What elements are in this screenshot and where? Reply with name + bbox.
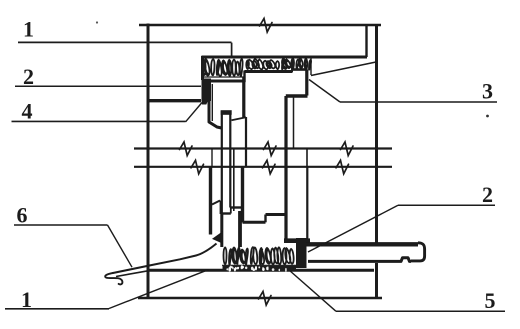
svg-text:1: 1 <box>23 17 34 42</box>
svg-text:6: 6 <box>17 203 28 228</box>
svg-text:4: 4 <box>22 99 33 124</box>
svg-text:5: 5 <box>485 288 496 313</box>
svg-text:2: 2 <box>482 182 493 207</box>
svg-text:3: 3 <box>482 79 493 104</box>
svg-text:2: 2 <box>23 64 34 89</box>
